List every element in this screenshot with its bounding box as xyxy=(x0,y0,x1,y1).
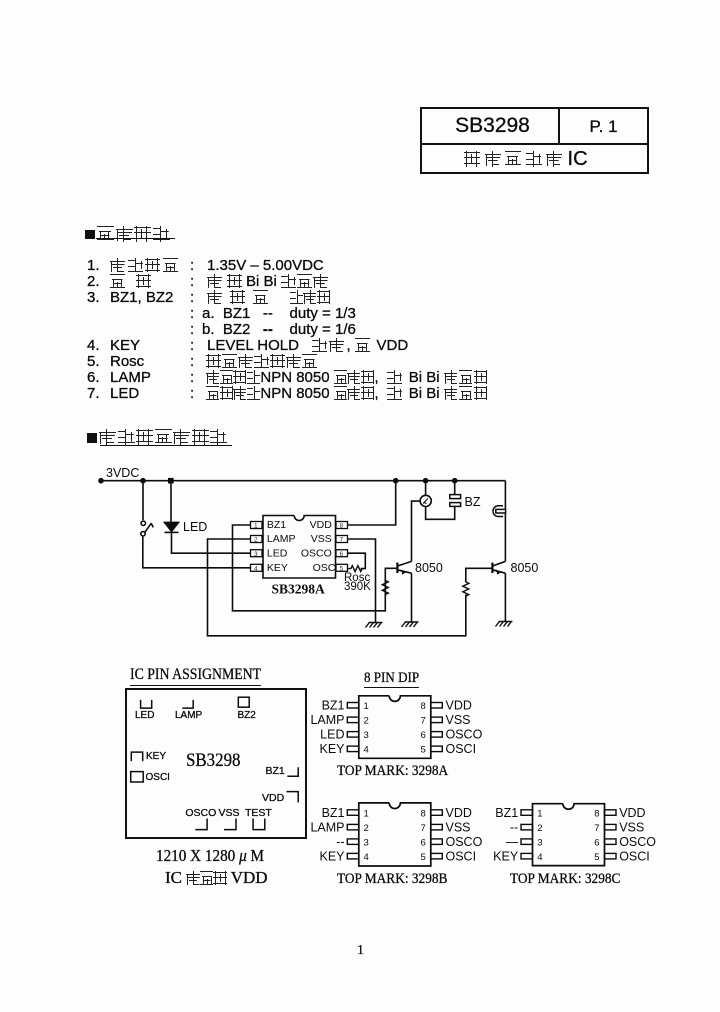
pad VSS (corner bottom-right) xyxy=(224,819,236,830)
wire Q1 emitter to ground xyxy=(411,573,413,622)
svg-text:4: 4 xyxy=(254,566,258,573)
ground Q2 xyxy=(496,622,513,627)
svg-text:7: 7 xyxy=(594,823,599,834)
wire LED to LED pin xyxy=(172,532,252,553)
svg-text:5: 5 xyxy=(340,566,344,573)
svg-text:OSCO: OSCO xyxy=(446,728,483,742)
pad KEY (open right) xyxy=(131,752,142,761)
node 3VDC label xyxy=(106,466,139,480)
svg-text:VSS: VSS xyxy=(311,533,332,545)
svg-text:--: -- xyxy=(336,835,344,849)
wire rail to buzzer xyxy=(454,481,456,495)
junction dot switch branch xyxy=(140,478,146,484)
svg-text:4: 4 xyxy=(364,745,369,756)
wire BZ1 pin1 net xyxy=(233,525,386,611)
svg-text:4: 4 xyxy=(364,852,369,863)
wire switch to KEY pin xyxy=(143,536,251,568)
DIP A pins left xyxy=(347,703,442,752)
svg-text:7: 7 xyxy=(421,823,426,834)
svg-text:VSS: VSS xyxy=(446,820,471,834)
svg-text:3: 3 xyxy=(537,837,542,848)
junction dot LED branch xyxy=(168,478,174,484)
wire switch branch xyxy=(142,481,144,520)
svg-text:8: 8 xyxy=(421,701,426,712)
svg-text:5: 5 xyxy=(421,745,426,756)
DIP C pin numbers xyxy=(537,808,599,863)
pad LAMP (corner) xyxy=(182,700,193,708)
svg-text:OSCI: OSCI xyxy=(619,849,650,863)
wire VSS pin7 to ground xyxy=(348,539,376,623)
svg-text:LAMP: LAMP xyxy=(310,820,344,834)
wire rail right corner to speaker xyxy=(504,481,506,510)
svg-text:KEY: KEY xyxy=(319,849,345,863)
svg-text:VSS: VSS xyxy=(446,713,471,727)
resistor Rosc 390K xyxy=(348,566,363,572)
svg-text:BZ1: BZ1 xyxy=(322,806,345,820)
pin 3 box xyxy=(251,550,263,557)
transistor Q2 8050 xyxy=(492,561,505,574)
pad TEST (corner bottom-right) xyxy=(253,819,265,830)
svg-text:LED: LED xyxy=(267,547,288,559)
pin 7 box xyxy=(336,536,348,543)
wire R2 bottom stub xyxy=(465,595,467,597)
svg-text:8: 8 xyxy=(340,523,344,530)
wire lamp bottom xyxy=(426,506,455,519)
wire Q1 collector to lamp xyxy=(412,501,421,561)
lamp LA1 xyxy=(420,495,431,506)
buzzer BZ xyxy=(450,495,461,507)
svg-text:LAMP: LAMP xyxy=(310,713,344,727)
svg-text:8: 8 xyxy=(421,808,426,819)
svg-text:6: 6 xyxy=(340,551,344,558)
wire power rail 3VDC xyxy=(101,480,505,482)
svg-text:6: 6 xyxy=(594,837,599,848)
svg-text:VDD: VDD xyxy=(446,806,472,820)
svg-text:OSCI: OSCI xyxy=(446,742,477,756)
svg-text:KEY: KEY xyxy=(493,849,519,863)
svg-text:OSCO: OSCO xyxy=(619,835,656,849)
pin 5 box xyxy=(336,564,348,571)
ground VSS xyxy=(366,623,383,628)
DIP B body xyxy=(359,803,431,866)
svg-text:1: 1 xyxy=(364,701,369,712)
DIP B pins xyxy=(347,810,442,859)
DIP A body xyxy=(359,696,431,759)
svg-text:OSCI: OSCI xyxy=(446,849,477,863)
svg-text:KEY: KEY xyxy=(267,562,288,574)
svg-text:BZ1: BZ1 xyxy=(322,699,345,713)
wire Q2 emitter to ground xyxy=(504,573,506,621)
svg-text:3: 3 xyxy=(254,551,258,558)
wire LAMP pin2 net xyxy=(208,539,466,636)
ground Q1 xyxy=(402,622,419,627)
DIP A pin numbers xyxy=(364,701,426,756)
pad BZ2 (square) xyxy=(238,697,249,707)
svg-text:LAMP: LAMP xyxy=(267,533,296,545)
resistor R2 (Q2 base) xyxy=(463,582,469,596)
pin 1 box xyxy=(251,522,263,529)
wire LED branch xyxy=(170,481,172,523)
DIP C pins xyxy=(521,810,616,859)
svg-text:VDD: VDD xyxy=(310,519,333,531)
svg-text:4: 4 xyxy=(537,852,542,863)
junction dot rail left end xyxy=(98,478,104,484)
svg-text:5: 5 xyxy=(594,852,599,863)
pin 6 box xyxy=(336,550,348,557)
svg-text:1: 1 xyxy=(254,523,258,530)
svg-text:1: 1 xyxy=(364,808,369,819)
junction dot buzzer branch xyxy=(452,478,458,484)
svg-text:BZ: BZ xyxy=(465,495,481,509)
pad BZ1 (corner top-right) xyxy=(287,767,298,776)
svg-text:1: 1 xyxy=(537,808,542,819)
svg-text:BZ1: BZ1 xyxy=(267,519,286,531)
svg-text:390K: 390K xyxy=(344,581,371,593)
svg-text:8050: 8050 xyxy=(415,561,443,575)
switch S1 xyxy=(141,521,154,536)
svg-text:SB3298A: SB3298A xyxy=(272,582,326,597)
wire VDD pin8 to rail xyxy=(348,481,396,525)
pads drawn in svg2 xyxy=(135,710,154,721)
pin numbers xyxy=(254,523,344,573)
DIP C labels xyxy=(493,806,656,864)
diode LED D1 xyxy=(165,522,179,532)
junction dot lamp branch xyxy=(423,478,429,484)
wire OSCO pin6 loop xyxy=(348,553,366,568)
svg-text:OSC: OSC xyxy=(313,562,336,574)
svg-text:6: 6 xyxy=(421,730,426,741)
wire speaker to Q2 collector xyxy=(504,513,506,561)
svg-text:8: 8 xyxy=(594,808,599,819)
DIP C body xyxy=(533,804,605,866)
svg-text:LED: LED xyxy=(320,728,344,742)
svg-text:VDD: VDD xyxy=(446,699,472,713)
svg-text:2: 2 xyxy=(364,823,369,834)
svg-text:OSCO: OSCO xyxy=(446,835,483,849)
svg-text:2: 2 xyxy=(537,823,542,834)
wire rail to lamp top xyxy=(425,481,427,496)
junction dot VDD branch xyxy=(393,478,399,484)
pad OSCO (corner bottom-right) xyxy=(195,819,207,830)
svg-text:3VDC: 3VDC xyxy=(106,466,139,480)
svg-text:VSS: VSS xyxy=(619,820,644,834)
transistor Q1 8050 xyxy=(397,561,411,574)
svg-text:6: 6 xyxy=(421,837,426,848)
pad LED (open top) xyxy=(141,700,152,708)
DIP B labels xyxy=(310,806,482,864)
wire R2 top to Q2 base xyxy=(466,568,492,582)
svg-text:VDD: VDD xyxy=(619,806,645,820)
pad VDD (corner top-right) xyxy=(287,792,299,803)
speaker/motor M1 xyxy=(493,506,506,517)
pin 4 box xyxy=(251,564,263,571)
pad OSCI (square) xyxy=(131,772,144,782)
svg-text:KEY: KEY xyxy=(319,742,345,756)
svg-text:3: 3 xyxy=(364,730,369,741)
pin 8 box xyxy=(336,522,348,529)
wire R1 to Q1 base xyxy=(385,568,396,580)
svg-text:7: 7 xyxy=(421,716,426,727)
svg-text:2: 2 xyxy=(364,716,369,727)
pin 2 box xyxy=(251,536,263,543)
svg-text:—: — xyxy=(506,835,519,849)
svg-text:OSCO: OSCO xyxy=(301,547,332,559)
DIP B pin numbers xyxy=(364,808,426,863)
resistor R1 (Q1 base) xyxy=(382,581,388,595)
svg-text:8050: 8050 xyxy=(511,561,539,575)
svg-text:2: 2 xyxy=(254,537,258,544)
op-amp ... IC U1 SB3298A body xyxy=(263,516,336,579)
svg-text:3: 3 xyxy=(364,837,369,848)
DIP A labels xyxy=(310,699,482,757)
svg-text:BZ1: BZ1 xyxy=(495,806,518,820)
svg-text:--: -- xyxy=(510,820,518,834)
svg-text:7: 7 xyxy=(340,537,344,544)
svg-text:LED: LED xyxy=(183,520,207,534)
page number xyxy=(357,943,364,959)
svg-text:5: 5 xyxy=(421,852,426,863)
